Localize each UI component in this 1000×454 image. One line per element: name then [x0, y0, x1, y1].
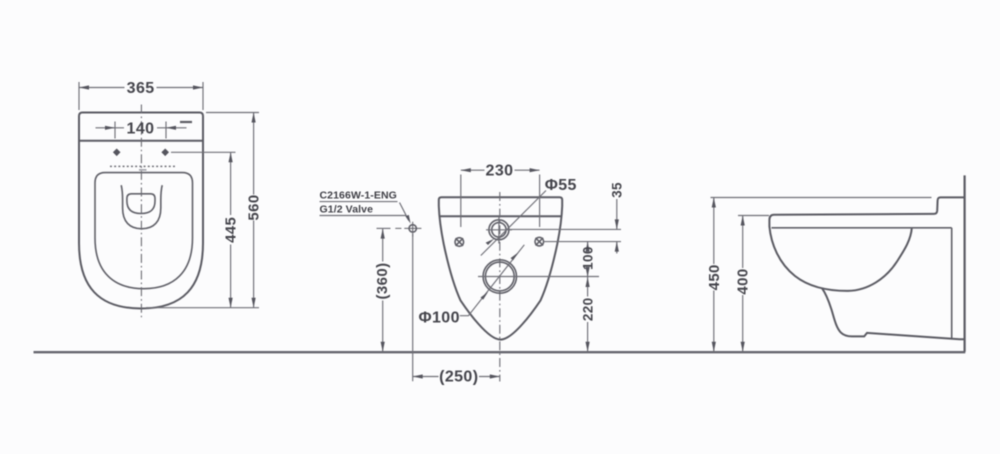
arrow 230 right [530, 168, 540, 172]
arrow 220 up [586, 277, 590, 287]
svg-text:140: 140 [127, 121, 155, 138]
arrow 230 left [461, 168, 471, 172]
arrow 140 left [105, 126, 115, 130]
leader from right bolt to 445 dim [171, 151, 236, 153]
phi55 crosshair [486, 217, 512, 244]
arrow 365 right [193, 85, 203, 89]
seat inner outline [95, 173, 193, 289]
body outline rear [439, 197, 562, 339]
svg-text:Φ100: Φ100 [418, 309, 459, 326]
phi55 circle [489, 220, 509, 240]
svg-text:G1/2 Valve: G1/2 Valve [320, 203, 374, 215]
dim 100 line [587, 242, 589, 277]
svg-text:400: 400 [735, 268, 752, 294]
water area D-shape [127, 194, 155, 214]
dim (250) extension from valve [412, 234, 414, 381]
dim 140 ticks [115, 122, 166, 139]
svg-text:(360): (360) [374, 262, 391, 299]
phi100 arrowhead upper [511, 253, 519, 261]
arrow (250) left [413, 374, 423, 378]
arrow 560 bottom [252, 298, 256, 308]
arrow (360) up [381, 229, 385, 239]
centerline middle view [499, 192, 501, 382]
svg-text:560: 560 [246, 194, 263, 220]
dim 365 line [79, 87, 203, 89]
toilet outer outline (top view) [79, 113, 203, 309]
phi55 center extension right [509, 228, 621, 230]
arrow 400 down [741, 342, 745, 352]
svg-text:35: 35 [610, 182, 625, 198]
dim 230 line [461, 169, 540, 171]
top extension for 560 [206, 112, 259, 114]
svg-text:365: 365 [127, 80, 155, 97]
arrow 220 down [586, 342, 590, 352]
centerline left view [140, 105, 142, 321]
arrow 450 down [712, 342, 716, 352]
dim 365 extension lines [79, 82, 203, 110]
arrow 140 right [166, 126, 176, 130]
arrow 100 up [586, 242, 590, 252]
dim 450 line [713, 198, 715, 352]
dim 35 line [616, 199, 618, 254]
dim (360) top tick [377, 227, 391, 229]
arrow 445 top [229, 152, 233, 162]
bowl rim U [121, 185, 162, 229]
arrow 35 down [615, 219, 619, 229]
dim 450 top extension [711, 197, 932, 199]
valve symbol [395, 222, 421, 237]
svg-text:445: 445 [223, 217, 240, 243]
cistern band line [79, 140, 203, 142]
trap and base profile [822, 288, 965, 339]
dim 140 line [96, 127, 187, 129]
svg-text:220: 220 [580, 297, 595, 321]
arrow 100 down [586, 267, 590, 277]
phi55 leader arrowhead [486, 239, 495, 245]
bolt hole left [455, 238, 464, 247]
arrow 450 up [712, 198, 716, 208]
dim (250) line [413, 376, 500, 378]
dim 220 line [587, 277, 589, 352]
bolt diamond left [113, 149, 121, 157]
arrow 445 bottom [229, 298, 233, 308]
phi100 leader line [460, 245, 525, 316]
arrow 365 left [79, 85, 89, 89]
phi100 arrowhead lower [481, 292, 489, 300]
svg-text:100: 100 [580, 246, 595, 270]
dim 400 top extension [738, 215, 769, 217]
bolt hole right [535, 237, 544, 246]
phi100 circle [483, 260, 516, 293]
wall line [963, 175, 965, 351]
dim 230 extension lines [461, 175, 540, 228]
phi55 leader line [481, 191, 546, 256]
underline label 2 [320, 215, 407, 217]
svg-text:C2166W-1-ENG: C2166W-1-ENG [320, 189, 397, 201]
small mark under dotted line [139, 169, 147, 171]
arrow 560 top [252, 113, 256, 123]
band line rear [440, 215, 560, 217]
dim 445 line [230, 152, 232, 307]
underline label 1 [320, 201, 398, 203]
bolt diamond right [161, 149, 169, 157]
bolt holes center extension right [544, 241, 621, 243]
svg-text:450: 450 [706, 264, 723, 290]
arrow (360) down [381, 342, 385, 352]
back inner vertical line [951, 228, 953, 339]
ground line [34, 351, 966, 353]
dim 400 line [742, 216, 744, 352]
dim 560 line [253, 113, 255, 308]
svg-text:(250): (250) [439, 368, 478, 385]
valve leader arrowhead [405, 215, 410, 224]
seat hinge dotted line [110, 165, 175, 167]
valve leader line [400, 203, 409, 221]
seat top inner line [772, 227, 952, 229]
side outline top and bowl [769, 197, 964, 291]
phi100 horizontal centerline extended right [478, 276, 599, 278]
arrow (250) right [490, 374, 500, 378]
svg-text:Φ55: Φ55 [545, 177, 577, 194]
bottom extension line left view [146, 307, 259, 309]
small dash mark right of 140 [180, 121, 192, 123]
dim (360) line [382, 229, 384, 352]
svg-text:230: 230 [486, 163, 514, 180]
arrow 400 up [741, 216, 745, 226]
arrow 35 up [615, 242, 619, 252]
